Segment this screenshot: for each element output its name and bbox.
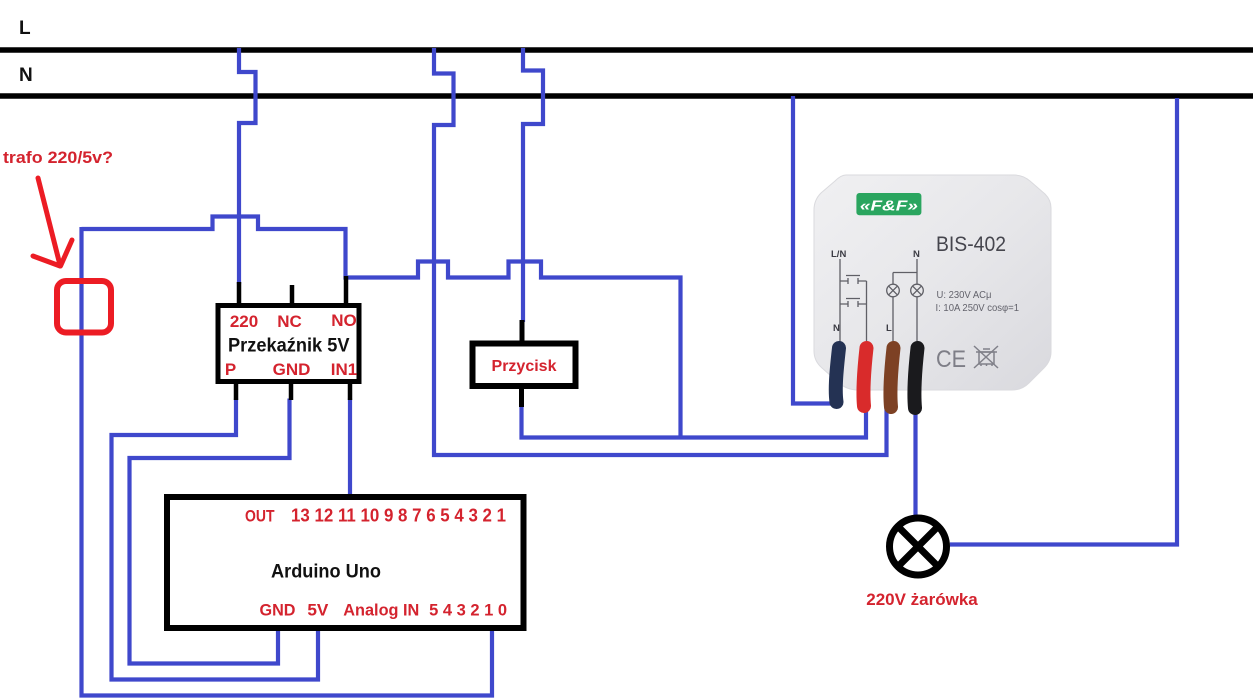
wire L tap B down to brown cable of BIS-402 [434, 48, 887, 455]
module brown cable L [890, 348, 893, 407]
wire lamp right side to N bus [950, 98, 1177, 545]
relay terminal stub NC [290, 285, 295, 306]
button top stub [520, 320, 525, 344]
module navy cable N [836, 348, 839, 402]
transformer red box [57, 281, 111, 333]
wire trafo vertical down and bottom run to Arduino analog pin [82, 227, 493, 696]
svg-text:5 4 3 2 1 0: 5 4 3 2 1 0 [429, 601, 507, 620]
button box Przycisk [473, 344, 576, 387]
svg-text:NC: NC [277, 312, 302, 331]
svg-text:220: 220 [230, 312, 258, 331]
svg-text:Analog IN: Analog IN [343, 601, 419, 620]
module schematic lamp branch [887, 259, 924, 343]
svg-text:trafo 220/5v?: trafo 220/5v? [3, 148, 113, 167]
relay bottom stub P [234, 384, 239, 400]
svg-text:Przekaźnik 5V: Przekaźnik 5V [228, 336, 350, 357]
svg-text:NO: NO [331, 311, 357, 330]
annotation arrow [33, 178, 72, 266]
Arduino box [167, 497, 524, 628]
wire Przycisk bottom to red cable of BIS-402 [522, 406, 867, 438]
svg-text:L: L [886, 323, 892, 334]
wire N tap to navy cable of BIS-402 [793, 96, 837, 404]
wire black cable of BIS-402 to lamp [913, 407, 917, 515]
svg-text:5V: 5V [307, 601, 329, 620]
svg-text:I: 10A 250V cosφ=1: I: 10A 250V cosφ=1 [936, 302, 1020, 314]
svg-text:N: N [833, 323, 840, 334]
wire relay IN1 to Arduino pin 11 [348, 399, 352, 502]
svg-text:13 12 11 10 9 8 7 6 5 4 3 2 1: 13 12 11 10 9 8 7 6 5 4 3 2 1 [291, 506, 506, 526]
module red cable [863, 348, 866, 406]
svg-text:IN1: IN1 [331, 360, 357, 379]
svg-text:P: P [225, 360, 236, 379]
wire relay P to Arduino 5V [112, 399, 319, 680]
node N bus line [0, 93, 1253, 99]
node L bus line [0, 47, 1253, 53]
module WEEE crossed bin icon [974, 346, 998, 368]
relay terminal stub 220 [237, 282, 242, 306]
svg-text:N: N [913, 249, 920, 260]
svg-text:CE: CE [936, 346, 966, 373]
svg-text:Przycisk: Przycisk [492, 358, 557, 375]
F&F logo [856, 193, 921, 215]
svg-text:U: 230V ACμ: U: 230V ACμ [937, 289, 992, 301]
svg-text:GND: GND [260, 601, 296, 620]
wire L tap C down to Przycisk top [523, 48, 543, 322]
wire trafo top to relay NO and down to junction [82, 217, 681, 438]
svg-text:OUT: OUT [245, 507, 275, 526]
svg-text:N: N [19, 65, 33, 86]
svg-text:GND: GND [273, 360, 311, 379]
module black cable [914, 348, 917, 408]
svg-text:BIS-402: BIS-402 [936, 233, 1006, 256]
relay bottom stub IN1 [348, 384, 353, 400]
relay box Przekaznik 5V [218, 306, 359, 382]
svg-text:L/N: L/N [831, 249, 846, 260]
module schematic switch branch [840, 259, 867, 343]
relay bottom stub GND [289, 384, 294, 400]
relay terminal stub NO [344, 276, 349, 306]
BIS-402 module body [814, 175, 1051, 390]
svg-text:220V żarówka: 220V żarówka [866, 590, 978, 609]
svg-text:L: L [19, 18, 31, 39]
wire L tap A to relay 220 terminal [239, 48, 256, 284]
button bottom stub [519, 389, 524, 407]
svg-text:«F&F»: «F&F» [860, 198, 918, 215]
svg-text:Arduino Uno: Arduino Uno [271, 562, 381, 583]
wire relay GND to Arduino GND [130, 399, 290, 664]
lamp symbol [890, 518, 947, 575]
